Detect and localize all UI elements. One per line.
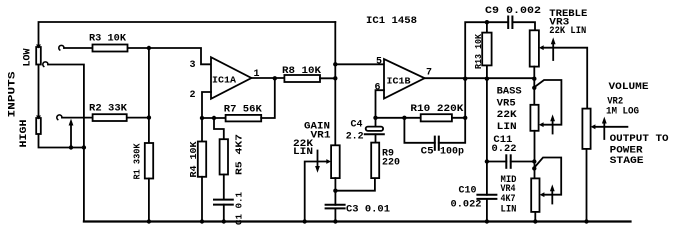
node IC1A output junction — [273, 76, 277, 80]
wire node to pin 3 — [149, 48, 211, 64]
node R13 bottom junction — [485, 77, 489, 81]
svg-text:LIN: LIN — [501, 205, 517, 216]
node VR1 bottom junction — [333, 189, 337, 193]
op-amp U1 IC1B — [384, 59, 425, 99]
svg-text:1M LOG: 1M LOG — [606, 107, 639, 118]
svg-text:100p: 100p — [440, 146, 464, 157]
svg-text:R3 10K: R3 10K — [89, 34, 126, 45]
node HIGH jack ground junctions — [69, 145, 73, 149]
svg-text:R10 220K: R10 220K — [410, 104, 463, 115]
svg-text:3: 3 — [190, 60, 196, 71]
capacitor C10 0.022 — [477, 195, 496, 222]
capacitor C11 0.22 — [487, 155, 534, 168]
wire VR5 adjust arrow — [550, 114, 555, 133]
node C11 left junction — [485, 159, 489, 163]
resistor R10 220K — [421, 79, 466, 122]
svg-text:0.22: 0.22 — [492, 144, 517, 155]
svg-text:C5: C5 — [421, 146, 434, 157]
wire mid wiper loop — [535, 158, 561, 198]
capacitor C4 2.2 — [365, 127, 384, 143]
wire top rail from LOW jack to pin5 node — [39, 22, 336, 47]
svg-text:5: 5 — [376, 57, 382, 68]
svg-text:22K LIN: 22K LIN — [549, 26, 586, 37]
svg-text:R5 4K7: R5 4K7 — [235, 134, 245, 175]
svg-text:R1 330K: R1 330K — [133, 143, 143, 180]
resistor R8 10K — [284, 75, 335, 82]
svg-text:R8 10K: R8 10K — [282, 66, 321, 77]
wire VR2 wiper output — [591, 124, 628, 129]
node ground rail junctions — [147, 219, 151, 223]
svg-text:R13 10K: R13 10K — [474, 33, 484, 69]
resistor R3 10K — [59, 45, 149, 52]
svg-text:R2 33K: R2 33K — [89, 104, 127, 115]
wire bass wiper loop — [535, 80, 561, 127]
node C5 right junction — [463, 116, 467, 120]
capacitor C9 0.002 — [508, 17, 535, 31]
svg-text:4K7: 4K7 — [501, 194, 516, 205]
svg-text:7: 7 — [426, 68, 432, 79]
wire pin5/R8/gain vertical — [334, 22, 336, 145]
node pin 2 junctions — [200, 116, 204, 120]
node pin 5 junction — [333, 62, 337, 66]
resistor R4 10K — [198, 118, 206, 222]
resistor R7 56K — [226, 78, 275, 121]
resistor R9 220 — [371, 143, 379, 179]
svg-text:IC1B: IC1B — [387, 77, 412, 87]
svg-text:OUTPUT TO: OUTPUT TO — [610, 134, 669, 145]
wire pin6 node to R10 — [376, 117, 421, 119]
svg-text:BASS: BASS — [497, 87, 522, 98]
svg-text:R7 56K: R7 56K — [224, 105, 262, 116]
svg-text:6: 6 — [375, 83, 381, 94]
wire pin 5 lead — [335, 63, 384, 65]
svg-text:HIGH: HIGH — [19, 120, 30, 148]
svg-text:LIN: LIN — [293, 147, 313, 158]
node R8 junction — [333, 76, 337, 80]
capacitor C5 100p bypass loop — [404, 118, 465, 150]
svg-text:C10: C10 — [459, 185, 477, 196]
svg-text:VR1: VR1 — [311, 130, 331, 141]
wire VR3 wiper to volume — [539, 45, 587, 108]
svg-text:STAGE: STAGE — [610, 156, 644, 167]
svg-text:2.2: 2.2 — [346, 132, 364, 143]
wire VR1 wiper to ground — [305, 159, 331, 221]
wire IC1A output to R8 — [251, 77, 284, 79]
wire VR1 adjust arrow — [315, 151, 320, 173]
wire HIGH jack switch contact arrow — [69, 119, 74, 148]
resistor R2 33K — [57, 114, 149, 121]
svg-text:R4 10K: R4 10K — [189, 141, 199, 178]
potentiometer VR3 TREBLE 22K LIN — [530, 30, 539, 105]
node IC1B output junction — [463, 77, 467, 81]
wire input jack ground chain — [39, 65, 84, 222]
capacitor C3 0.01 — [326, 191, 345, 222]
wire IC1B output — [425, 77, 535, 79]
svg-text:220: 220 — [382, 158, 400, 169]
resistor R5 4K7 — [214, 118, 228, 199]
resistor R1 330K — [145, 143, 153, 222]
svg-text:1: 1 — [254, 69, 260, 80]
wire input node vertical — [148, 48, 150, 143]
svg-text:C9 0.002: C9 0.002 — [485, 6, 541, 17]
wire VR3 adjust arrow — [551, 37, 556, 60]
resistor R13 10K — [482, 22, 491, 78]
wire LOW tip to ground bus — [48, 65, 84, 148]
wire C10/C11 vertical from output node — [486, 79, 488, 195]
node treble bottom junction — [532, 77, 536, 81]
potentiometer VR4 MID 4K7 LIN — [531, 178, 539, 221]
svg-text:IC1 1458: IC1 1458 — [366, 16, 417, 27]
wire bottom ground rail — [84, 220, 631, 222]
wire output node up to C9 line — [465, 22, 508, 78]
op-amp U1 IC1A — [211, 57, 251, 99]
wire pin 2 lead — [202, 92, 211, 118]
node bass top junction — [532, 86, 536, 90]
node pin 6 / R10 junction — [373, 116, 377, 120]
svg-text:LOW: LOW — [23, 49, 34, 67]
node R13 top junction — [485, 20, 489, 24]
svg-text:22K: 22K — [497, 110, 517, 121]
potentiometer VR2 VOLUME 1M LOG — [582, 109, 590, 222]
node mid top junction — [532, 166, 536, 170]
svg-text:INPUTS: INPUTS — [8, 72, 19, 118]
svg-text:0.022: 0.022 — [451, 199, 482, 210]
node C11 right junction — [532, 159, 536, 163]
svg-text:VOLUME: VOLUME — [609, 82, 649, 93]
wire VR4 adjust arrow — [550, 184, 555, 203]
node R3/R2/R1/pin3 junction — [147, 46, 151, 50]
potentiometer VR1 GAIN 22K LIN — [331, 145, 340, 190]
svg-text:C3 0.01: C3 0.01 — [346, 205, 390, 216]
svg-text:C1 0.1: C1 0.1 — [235, 191, 245, 225]
svg-text:IC1A: IC1A — [212, 76, 237, 86]
svg-text:C4: C4 — [351, 120, 363, 131]
wire VR2 adjust arrow — [602, 117, 607, 139]
jack LOW input — [36, 45, 41, 65]
svg-text:LIN: LIN — [497, 122, 517, 133]
svg-text:POWER: POWER — [610, 146, 643, 157]
svg-text:VR5: VR5 — [497, 99, 516, 110]
jack HIGH input — [36, 116, 41, 135]
svg-text:2: 2 — [190, 90, 196, 101]
potentiometer VR5 BASS 22K LIN — [530, 105, 538, 179]
capacitor C1 0.1 — [214, 200, 233, 222]
wire pin 6 lead — [376, 90, 385, 126]
wire VR1 bottom to R9 — [335, 178, 375, 191]
wire pin 2 node to R7 — [202, 117, 226, 119]
node C5 left junction — [402, 116, 406, 120]
